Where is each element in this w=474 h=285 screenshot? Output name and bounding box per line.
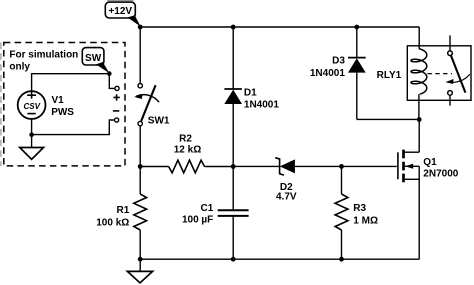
svg-text:SW1: SW1 [148,115,170,126]
wire: minus terminal to V1 bottom [32,120,115,135]
svg-text:2N7000: 2N7000 [423,169,458,180]
pin label plus [113,94,119,100]
svg-text:PWS: PWS [51,107,74,118]
label R1 value [96,205,129,229]
resistor R1 [134,167,147,260]
label V1 PWS [51,95,74,118]
svg-text:100 µF: 100 µF [182,214,213,225]
svg-text:V1: V1 [52,95,65,106]
label D2 value [276,182,297,203]
wire: top +12V rail [140,26,419,28]
svg-text:R2: R2 [179,134,192,145]
label D1 value [244,88,279,111]
svg-text:For simulation: For simulation [9,49,78,60]
svg-text:only: only [9,62,30,73]
svg-text:100 kΩ: 100 kΩ [96,217,129,228]
svg-text:Q1: Q1 [423,157,437,168]
wire: bottom ground rail [140,258,419,260]
ground (simulation) [20,148,44,160]
wire: SW node to plus terminal [109,74,115,89]
label R3 value [353,203,378,226]
node: rail junction above D3 [354,25,359,30]
switch SW1 [134,84,159,126]
svg-text:SW: SW [85,53,102,64]
wire: D3 to drain node [357,118,419,120]
wire: rail drop to SW1 [139,27,141,83]
svg-text:12 kΩ: 12 kΩ [174,144,201,155]
node: ground rail at R3 [339,257,344,262]
relay RLY1 [407,35,471,119]
wire: V1 bottom [31,119,33,148]
pin: minus terminal [115,118,119,122]
node: SW net junction [107,71,112,76]
node: D2/R3/gate junction [339,164,344,169]
node: ground rail at C1 [231,257,236,262]
label Q1 value [423,157,458,180]
label R2 value [174,134,201,156]
wire: SW leader wedge [96,62,109,73]
capacitor C1 [218,167,249,260]
node: ground rail at R1 [138,257,143,262]
node: R2/D1/C1/D2 junction [231,164,236,169]
wire: V1 plus to SW node [32,74,110,91]
svg-text:4.7V: 4.7V [276,192,297,203]
svg-text:R1: R1 [117,205,130,216]
label D3 value [310,56,345,80]
label C1 value [182,203,214,225]
svg-text:1N4001: 1N4001 [244,99,279,110]
power label +12V [105,0,135,18]
svg-text:RLY1: RLY1 [377,70,402,81]
svg-text:+12V: +12V [108,6,132,17]
pin: plus terminal [115,86,119,90]
wire: gate [342,165,397,167]
node A: R1/R2 junction [138,164,143,169]
resistor R3 [335,166,348,259]
node: drain/coil/D3 junction [417,117,422,122]
transistor Q1 2N7000 [398,120,419,260]
pin label minus [113,110,119,112]
net label SW [82,48,104,65]
node: rail junction above SW1 [138,25,143,30]
svg-text:D3: D3 [332,56,345,67]
wire: rail drop to relay coil [418,27,420,49]
svg-text:1 MΩ: 1 MΩ [353,216,378,227]
wire: SW1 to node A [139,126,141,167]
resistor R2 [140,160,233,173]
svg-text:1N4001: 1N4001 [310,68,345,79]
wire: +12V leader wedge [128,15,141,26]
zener diode D2 4.7V [233,158,341,175]
svg-text:D1: D1 [244,88,257,99]
node: V1 ground junction [29,132,34,137]
svg-text:CSV: CSV [23,102,40,111]
svg-text:R3: R3 [353,203,366,214]
node: rail junction above D1 [231,25,236,30]
simulation-only dashed box [1,43,125,167]
ground [127,259,152,283]
svg-text:C1: C1 [201,203,214,214]
voltage source V1 PWS [18,91,46,119]
diode D3 1N4001 [348,27,366,119]
label: For simulation only [9,49,78,72]
diode D1 1N4001 [224,27,242,167]
